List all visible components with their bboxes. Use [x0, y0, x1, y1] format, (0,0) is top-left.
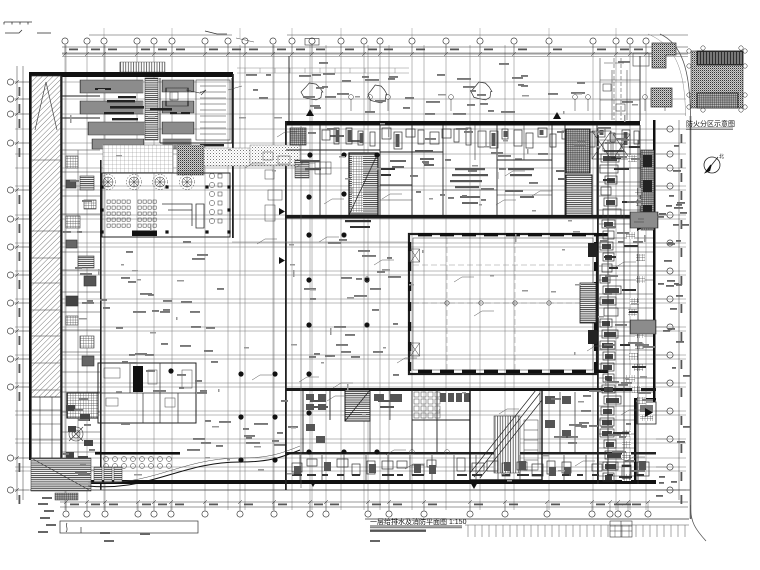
site block B — [651, 88, 672, 107]
spa round table — [69, 427, 83, 441]
road arc bottom — [690, 505, 706, 541]
hall wall piers — [408, 233, 608, 373]
revision cloud small — [186, 90, 206, 95]
marker tri 7 — [470, 482, 478, 489]
paving stipple D — [250, 145, 300, 165]
marker tri 6 — [309, 480, 317, 487]
column dots — [168, 152, 379, 462]
top-center extra text — [330, 135, 568, 204]
racks — [94, 467, 122, 482]
strip lower fixtures — [66, 405, 93, 446]
leader lines — [245, 132, 645, 469]
sheet bottom rule — [365, 518, 689, 520]
paving stipple C — [204, 148, 300, 166]
right wing lower wall — [634, 398, 637, 484]
building top long line — [62, 52, 688, 54]
left bottom box — [60, 521, 198, 533]
pool crosshatch — [67, 393, 98, 418]
minimap bubbles — [687, 46, 747, 112]
mid rooms walls2 — [370, 390, 575, 452]
hall wall continuity — [409, 234, 597, 374]
marker tri 3 — [279, 208, 285, 215]
minimap top band — [697, 51, 743, 65]
right wing vertical pipes — [608, 58, 638, 484]
grid stems above — [104, 28, 616, 38]
strip lower rooms — [32, 397, 61, 458]
ramp strip hatch — [32, 76, 61, 397]
terrace steps hatch — [31, 458, 91, 491]
svg-text:北: 北 — [719, 153, 724, 160]
left rooms wall — [100, 160, 102, 490]
hall vent shaft bottom — [411, 343, 420, 356]
bottom wall thick — [60, 480, 656, 484]
hall inner line — [413, 238, 593, 370]
dimension chains — [15, 47, 688, 507]
under-building checker — [55, 493, 78, 500]
east bump — [637, 402, 656, 424]
hall outer wall — [409, 234, 597, 374]
revision cloud 3 — [471, 82, 492, 100]
room labels — [300, 150, 624, 188]
hall niche blocks — [588, 243, 597, 344]
top-right corner rooms — [600, 58, 640, 120]
scattered dimension specks — [62, 61, 656, 476]
equipment band top — [322, 128, 639, 149]
round tables — [101, 175, 195, 190]
wall W2 top-center — [285, 121, 640, 126]
legend steps table — [610, 521, 632, 537]
parking stall combs — [80, 62, 194, 149]
parking text blobs — [95, 88, 224, 146]
right wing outer wall — [653, 120, 656, 402]
minimap title underline — [686, 128, 733, 130]
corridor wall center — [285, 121, 287, 490]
auditorium side racks — [524, 420, 538, 470]
auditorium diagonals — [470, 390, 542, 478]
stair S1 labels — [345, 168, 395, 228]
kitchen fixtures — [104, 368, 192, 407]
wall W1 hatch ticks — [120, 62, 160, 72]
top-center room walls — [286, 125, 640, 215]
dimension texts — [19, 49, 683, 506]
revision cloud 1 — [301, 83, 323, 100]
right wing fixtures — [600, 143, 647, 481]
road arc top — [660, 34, 691, 116]
bottom-left text specks — [38, 497, 380, 542]
title underline — [370, 526, 462, 528]
right wing room dividers — [599, 140, 653, 476]
svg-text:防火分区示意图: 防火分区示意图 — [686, 119, 735, 128]
inner grid bubbles — [349, 95, 668, 111]
marker tri 1 — [306, 109, 314, 116]
svg-text:一层给排水及消防平面图 1:150: 一层给排水及消防平面图 1:150 — [370, 517, 467, 526]
revision cloud 2 — [368, 85, 387, 103]
left service rooms — [62, 150, 100, 480]
minimap body — [691, 51, 743, 108]
mid rooms fixtures2 — [374, 394, 571, 438]
chair column — [209, 173, 222, 223]
kitchen inner walls — [98, 363, 196, 423]
top sheet tick marks — [5, 30, 227, 34]
top outer dim line — [89, 34, 688, 36]
wall W1 top-left thick — [30, 72, 233, 77]
mid room labels — [308, 400, 396, 408]
right wing inner wall — [597, 135, 599, 484]
corridor south wall — [285, 215, 640, 219]
top scale bar — [4, 22, 32, 25]
restaurant columns — [100, 185, 230, 233]
top-center extra walls — [380, 125, 552, 215]
service counter dark — [132, 231, 157, 237]
paving stipple B — [177, 145, 204, 175]
marker tri 2 — [553, 112, 561, 119]
stair S1 dark — [349, 153, 378, 215]
auditorium seats comb — [494, 416, 520, 473]
north arrow — [704, 153, 724, 173]
bottom corridor wall — [286, 452, 656, 455]
north terrace lines — [237, 68, 409, 73]
minimap bottom band — [697, 93, 738, 108]
lobby table — [315, 162, 331, 174]
lift L1 — [592, 131, 611, 159]
parking inner walls — [62, 78, 233, 143]
road edge vertical — [690, 116, 692, 519]
bottom corridor dividers — [300, 455, 630, 480]
courtyard west wall — [232, 74, 234, 238]
right exterior stair — [630, 212, 658, 228]
curved canopy — [88, 446, 300, 487]
hall center dashes — [413, 238, 593, 370]
hall floor sockets — [445, 301, 551, 305]
strip room divisions — [32, 160, 61, 390]
servery counter — [95, 452, 180, 455]
corridor head block — [290, 128, 306, 145]
site rect C — [633, 53, 649, 66]
left strip inner wall — [61, 76, 63, 490]
building top second line — [62, 56, 688, 58]
grid bubbles — [7, 38, 673, 517]
right wing dark riser — [641, 150, 654, 230]
courtyard furniture — [228, 38, 290, 221]
wc fixtures — [414, 392, 470, 418]
right wing step wall — [634, 398, 656, 401]
marker tri 5 — [637, 223, 644, 231]
open circles — [342, 233, 450, 455]
stair S4 — [345, 390, 370, 421]
grid bubble stems — [14, 44, 667, 511]
kitchen dark column — [133, 366, 143, 392]
stair S3 — [566, 175, 592, 216]
wc block walls — [303, 390, 470, 452]
small room fixtures — [66, 452, 88, 468]
ramp triangle — [35, 82, 57, 130]
corridor east wall — [300, 126, 302, 488]
courtyard canopy line — [232, 241, 408, 243]
stair S2 crosshatch — [566, 129, 590, 173]
seating grid — [107, 200, 156, 227]
site block A — [652, 43, 676, 68]
lift L2 — [613, 134, 630, 159]
cafe chairs rows — [104, 457, 172, 469]
title note — [370, 530, 426, 532]
marker tri 4 — [279, 257, 285, 264]
bottom outer line — [30, 489, 690, 491]
road arc top2 — [648, 34, 686, 116]
right margin specks — [656, 145, 691, 497]
marker tri 8 — [645, 408, 653, 417]
lobby steps — [295, 160, 309, 178]
left outer wall — [29, 72, 31, 460]
hall vent shaft top — [411, 249, 420, 262]
parking ramp comb strip — [145, 78, 158, 140]
column grid lines — [15, 45, 686, 510]
bottom fence ticks — [465, 525, 689, 537]
bottom corridor fixtures — [292, 458, 649, 478]
restaurant outline — [102, 173, 230, 237]
bar counter — [162, 204, 204, 228]
fine text noise — [70, 89, 647, 482]
bottom rooms top wall — [286, 388, 656, 391]
right exterior stair2 — [630, 320, 656, 334]
paving stipple A — [103, 145, 173, 173]
wc west fixtures — [306, 394, 326, 443]
wall upper-right step — [289, 56, 640, 121]
hall stage niche — [580, 283, 596, 323]
storage room right — [166, 80, 230, 140]
kitchen block outline — [98, 363, 196, 423]
axis label box — [305, 39, 319, 46]
auditorium outline — [470, 390, 542, 480]
